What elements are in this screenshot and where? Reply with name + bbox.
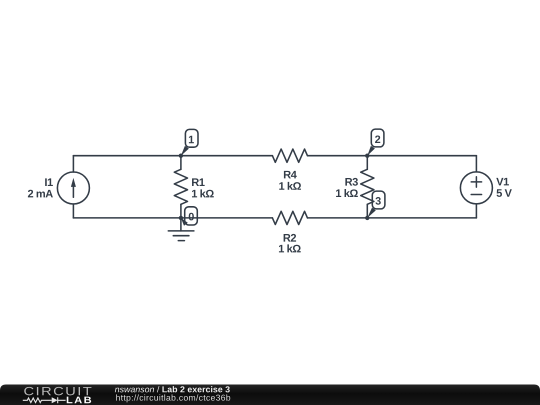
label I1 (45, 178, 53, 186)
wire bottom rail left segment (73, 217, 272, 219)
wire R3 bottom lead (366, 204, 368, 218)
logo resistor zigzag (23, 398, 52, 403)
value R1 1 kOhm (192, 189, 214, 197)
wire R1 bottom lead (180, 204, 182, 218)
label V1 (496, 178, 509, 186)
voltage source V1 circle (460, 172, 492, 204)
logo LAB text (67, 397, 91, 404)
node 3 junction dot (365, 216, 369, 220)
value R2 1 kOhm (279, 244, 301, 252)
node label 3 box (372, 191, 385, 209)
node 2 leader wedge (367, 146, 375, 156)
node 1 digit (189, 136, 194, 143)
logo CIRCUIT text (24, 387, 91, 396)
ground bar 1 (168, 230, 194, 232)
node 2 junction dot (365, 154, 369, 158)
value 2 mA (28, 190, 53, 198)
ground stem (180, 218, 182, 231)
node 3 digit (375, 197, 380, 205)
wire left branch top (72, 156, 74, 172)
current source I1 arrow shaft (72, 186, 74, 197)
value R4 1 kOhm (279, 182, 301, 190)
node 0 digit (189, 213, 194, 221)
label R2 (284, 234, 296, 242)
node 0 leader wedge (181, 218, 188, 226)
node 0 junction dot (179, 216, 183, 220)
label R3 (345, 178, 358, 186)
wire bottom rail right segment (308, 217, 477, 219)
node 1 leader wedge (181, 146, 189, 156)
wire right branch top (475, 156, 477, 172)
footer title line (115, 386, 230, 392)
resistor R3 (361, 169, 374, 204)
label R4 (284, 171, 297, 179)
wire top rail right segment (308, 155, 477, 157)
node 3 leader wedge (367, 208, 376, 218)
node label 2 box (371, 129, 384, 147)
voltage source V1 plus sign (471, 177, 481, 187)
logo diode cathode bar (58, 397, 66, 403)
voltage source V1 minus sign (471, 194, 481, 196)
current source I1 arrowhead (71, 178, 76, 187)
footer url line (116, 394, 230, 402)
value R3 1 kOhm (336, 189, 358, 197)
wire R1 top lead (180, 156, 182, 170)
node 1 junction dot (179, 154, 183, 158)
label R1 (192, 178, 205, 186)
ground bar 3 (178, 240, 184, 242)
node 2 digit (375, 135, 380, 143)
wire left branch bottom (72, 204, 74, 218)
node label 1 box (185, 129, 198, 147)
logo diode triangle (52, 397, 58, 403)
wire top rail left segment (73, 155, 272, 157)
value V1 5 V (497, 189, 512, 197)
current source I1 circle (57, 172, 89, 204)
resistor R4 (272, 149, 307, 162)
resistor R1 (174, 169, 187, 204)
node label 0 box (185, 207, 198, 225)
wire R3 top lead (366, 156, 368, 170)
wire right branch bottom (475, 204, 477, 218)
ground bar 2 (173, 235, 189, 237)
resistor R2 (272, 211, 307, 224)
